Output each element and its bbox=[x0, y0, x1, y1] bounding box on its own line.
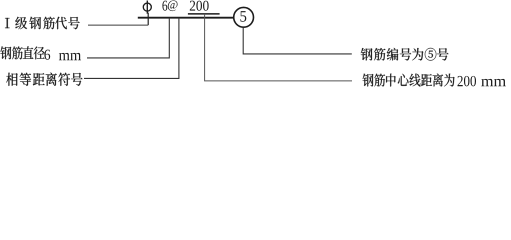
diameter symbol phi bbox=[143, 1, 151, 14]
label: 相等距离符号 (equal spacing symbol) bbox=[6, 73, 82, 86]
leader: under @ down to label 3 bbox=[84, 18, 179, 79]
notation text 6@ bbox=[162, 0, 177, 11]
label: 钢筋编号为(5)号 (rebar number is No.5) bbox=[361, 48, 449, 61]
label: 钢筋直径6 mm (rebar diameter 6 mm) bbox=[0, 46, 81, 60]
main annotation line bbox=[138, 17, 234, 19]
leader: phi tick to label 1 bbox=[88, 24, 148, 26]
leader: under 200 down to label 5 bbox=[205, 14, 352, 81]
number 5 in circle bbox=[240, 11, 246, 22]
rebar number circle bbox=[234, 7, 254, 27]
notation text 200 with underline bbox=[190, 1, 209, 11]
label: 钢筋中心线距离为200 mm (rebar centerline spacing 200 mm) bbox=[363, 74, 506, 87]
leader: under 6 down to label 2 bbox=[87, 18, 169, 58]
tick across main line below phi bbox=[147, 13, 149, 26]
leader: circle down to label 4 bbox=[243, 27, 352, 54]
label: I 级钢筋代号 (Grade I rebar code) bbox=[5, 17, 80, 30]
